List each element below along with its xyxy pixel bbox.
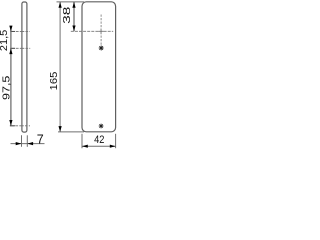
dimension line 165: [59, 2, 61, 132]
arrow up tip at 48.3: [9, 48, 12, 54]
extension lines 7: [21, 135, 23, 147]
horizontal center line front view: [71, 30, 113, 32]
arrow down tip 38 bottom: [72, 26, 75, 32]
arrow down tip at 125.8: [9, 120, 12, 126]
arrow up tip 165 top: [59, 2, 62, 8]
arrow up tip 38 top: [72, 2, 75, 8]
svg-text:97,5: 97,5: [1, 76, 12, 100]
dimension line 38: [73, 2, 75, 31]
arrow left tip 27.3: [27, 142, 33, 145]
side view plate outline: [22, 2, 27, 132]
svg-text:38: 38: [60, 7, 72, 24]
svg-text:21,5: 21,5: [0, 30, 10, 52]
center line top screw (left view): [10, 47, 30, 49]
svg-text:165: 165: [49, 72, 60, 91]
arrow right tip 42 right: [110, 145, 116, 148]
vertical center line front view: [100, 15, 102, 46]
top extension line: [57, 1, 85, 3]
dimension line 42: [82, 145, 116, 147]
center line bottom screw (left view): [10, 125, 30, 127]
dimension line 7: [11, 143, 45, 145]
arrow left tip 42 left: [82, 145, 88, 148]
screw symbol top: [99, 46, 104, 51]
center line handle axis (left view): [10, 30, 30, 32]
bottom extension line: [58, 131, 84, 133]
svg-text:7: 7: [37, 132, 44, 146]
hole center cross: [98, 30, 104, 32]
dimension line 21,5 / 97,5: [10, 26, 12, 126]
tick solid starts: [10, 30, 15, 32]
arrow down tip 165 bottom: [59, 126, 62, 132]
screw symbol bottom: [99, 124, 104, 129]
extension lines 42: [81, 134, 83, 148]
arrow right tip 21.5: [16, 142, 22, 145]
arrow down tip at 31.4: [9, 26, 12, 32]
front view plate outline: [82, 2, 116, 132]
svg-text:42: 42: [94, 134, 105, 146]
